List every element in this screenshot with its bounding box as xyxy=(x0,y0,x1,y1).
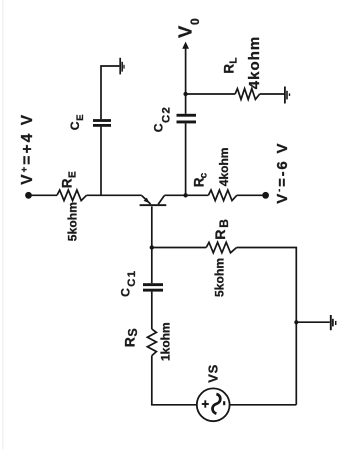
svg-text:E: E xyxy=(67,171,78,178)
ground (CE) xyxy=(120,58,124,75)
wire: RE to Q1 emitter xyxy=(87,194,142,196)
scan edge artifact line xyxy=(2,0,4,449)
capacitor CE xyxy=(93,119,111,127)
wire: base node to CC1 xyxy=(151,248,153,284)
svg-text:R: R xyxy=(122,337,138,347)
wire: CC2 to output node xyxy=(185,94,187,114)
svg-text:4kohm: 4kohm xyxy=(246,36,263,90)
source VS minus sign xyxy=(223,401,225,405)
node label V-=-6V xyxy=(274,142,291,204)
capacitor CC2 xyxy=(177,114,197,124)
svg-text:E: E xyxy=(75,114,86,120)
node label V+=+4V xyxy=(19,113,36,185)
resistor RS xyxy=(147,329,156,356)
junction dot at collector node xyxy=(183,193,187,197)
resistor RB xyxy=(206,242,236,253)
transistor Q1 emitter arrowhead xyxy=(144,198,150,204)
ground (right rail) xyxy=(331,315,336,330)
svg-text:C: C xyxy=(152,123,166,132)
svg-text:L: L xyxy=(229,57,240,63)
arrowhead V0 xyxy=(182,42,189,49)
svg-text:VS: VS xyxy=(205,364,220,383)
wire: RL to ground xyxy=(260,93,285,95)
svg-text:C1: C1 xyxy=(126,270,138,287)
svg-text:C2: C2 xyxy=(161,106,173,123)
capacitor label CC1 xyxy=(118,270,138,297)
capacitor label CE xyxy=(68,114,86,130)
svg-text:1kohm: 1kohm xyxy=(159,322,173,361)
svg-text:5kohm: 5kohm xyxy=(66,202,80,241)
wire: V+ terminal to RE xyxy=(30,194,57,196)
svg-text:c: c xyxy=(199,172,210,178)
svg-text:C: C xyxy=(118,288,132,297)
svg-text:S: S xyxy=(126,328,140,336)
node V+ terminal dot xyxy=(25,192,32,199)
svg-text:0: 0 xyxy=(188,18,202,25)
wire: CE branch lower xyxy=(100,127,102,196)
resistor RE xyxy=(57,190,87,201)
svg-text:5kohm: 5kohm xyxy=(213,258,227,297)
wire: CC1 to RS xyxy=(151,292,153,329)
source VS sine xyxy=(213,394,221,414)
transistor Q1 base bar xyxy=(140,204,167,206)
wire: right rail to ground xyxy=(296,321,330,323)
resistor label RL xyxy=(222,57,240,73)
wire: RB to right rail xyxy=(237,248,297,405)
wire: Rc to V- terminal xyxy=(237,194,264,196)
resistor label RE xyxy=(59,171,78,188)
wire: RS to bottom rail xyxy=(152,356,197,405)
wire: VS to right rail xyxy=(230,404,297,406)
wire: Q1 base lead xyxy=(151,206,153,247)
svg-text:V+=+4 V: V+=+4 V xyxy=(19,113,36,185)
wire: collector node to CC2 xyxy=(185,123,187,195)
capacitor label CC2 xyxy=(152,106,173,132)
svg-text:V-=-6 V: V-=-6 V xyxy=(274,142,291,204)
svg-text:R: R xyxy=(212,229,228,239)
wire: output node to V0 arrow xyxy=(185,47,187,94)
wire: CE to ground xyxy=(101,66,119,119)
source VS circle xyxy=(197,388,230,421)
wire: base node to RB xyxy=(152,247,206,249)
svg-text:R: R xyxy=(59,178,74,188)
svg-text:R: R xyxy=(222,64,237,74)
wire: output node to RL xyxy=(186,93,236,95)
svg-text:4kohm: 4kohm xyxy=(217,148,231,187)
resistor label Rc xyxy=(192,172,210,187)
resistor Rc xyxy=(208,190,236,201)
junction dot at base node xyxy=(150,245,154,249)
resistor label RS xyxy=(122,328,141,347)
svg-text:B: B xyxy=(217,219,231,228)
wire: Q1 collector to Rc xyxy=(164,194,208,196)
junction dot at ground stub xyxy=(294,320,298,324)
svg-text:C: C xyxy=(68,121,82,130)
resistor RL xyxy=(235,89,260,100)
junction dot at output node xyxy=(183,92,187,96)
ground (RL) xyxy=(285,87,290,104)
svg-text:V: V xyxy=(175,25,196,38)
transistor Q1 (PNP) emitter diagonal xyxy=(142,196,151,205)
node label V0 xyxy=(175,18,203,38)
source VS plus sign xyxy=(202,400,209,407)
resistor label RB xyxy=(212,219,231,240)
node V- terminal dot xyxy=(262,192,269,199)
transistor Q1 collector diagonal xyxy=(158,196,164,205)
capacitor CC1 xyxy=(143,283,163,291)
